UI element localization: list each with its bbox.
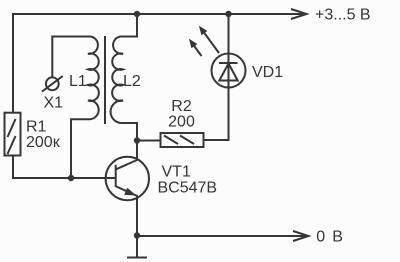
LED VD1 cathode bar — [219, 62, 238, 64]
connector X1 slash — [42, 76, 63, 92]
svg-text:R2: R2 — [171, 98, 192, 115]
LED VD1 triangle — [219, 64, 237, 81]
inductor L1 winding — [88, 37, 99, 120]
svg-text:VD1: VD1 — [252, 64, 283, 81]
node junction dot top rail / LED branch — [225, 11, 231, 17]
transistor VT1 emitter arrow — [124, 188, 136, 196]
wire: R2 right lead up through LED to top rail — [204, 14, 229, 140]
svg-text:L2: L2 — [123, 73, 141, 90]
svg-text:+3...5 В: +3...5 В — [315, 6, 371, 23]
node junction dot emitter/0V rail — [134, 232, 140, 238]
svg-text:X1: X1 — [44, 95, 64, 112]
resistor R2 body — [161, 133, 204, 147]
node junction dot base/L1 — [68, 175, 74, 181]
svg-text:BC547B: BC547B — [158, 180, 218, 197]
wire: X1 up and right to L1 top — [52, 37, 90, 78]
svg-text:200: 200 — [168, 113, 195, 130]
svg-text:0: 0 — [316, 229, 325, 246]
wire: L2 bottom lead down to collector node — [121, 123, 138, 141]
LED light arrow 2 — [189, 39, 202, 56]
resistor R1 body — [5, 113, 21, 156]
node junction dot collector/R2/L2 — [134, 137, 140, 143]
terminal bar — [127, 257, 147, 259]
transistor VT1 circle — [106, 157, 149, 200]
power arrow +3...5 V — [291, 9, 307, 19]
LED light arrow 1 — [199, 26, 219, 53]
resistor R2 slashes — [164, 136, 194, 145]
wire: R2 left lead — [137, 140, 161, 142]
svg-text:VT1: VT1 — [162, 164, 191, 181]
node junction dot top rail / L2 — [134, 11, 140, 17]
transistor VT1 base bar — [115, 165, 117, 187]
wire: L1 bottom lead down to base junction — [71, 119, 91, 178]
wire: 0V rail to arrow — [137, 235, 305, 237]
transistor VT1 collector — [116, 141, 137, 170]
transformer core — [104, 36, 106, 124]
wire: emitter stub to terminal bar — [136, 236, 138, 258]
wire: R1 bottom down and right to transistor base — [13, 156, 116, 179]
inductor L2 winding — [111, 37, 123, 124]
svg-text:L1: L1 — [69, 73, 87, 90]
LED VD1 circle — [212, 54, 246, 88]
wire: L2 top lead up to top rail — [121, 14, 138, 37]
resistor R1 slashes — [8, 119, 16, 154]
ground arrow 0 V — [293, 231, 309, 241]
connector X1 circle — [46, 77, 59, 90]
wire: +V top rail from top-left corner to arrow — [13, 14, 303, 112]
svg-text:R1: R1 — [26, 119, 47, 136]
transistor VT1 emitter — [116, 186, 137, 235]
svg-text:В: В — [332, 229, 343, 246]
svg-text:200к: 200к — [26, 134, 61, 151]
